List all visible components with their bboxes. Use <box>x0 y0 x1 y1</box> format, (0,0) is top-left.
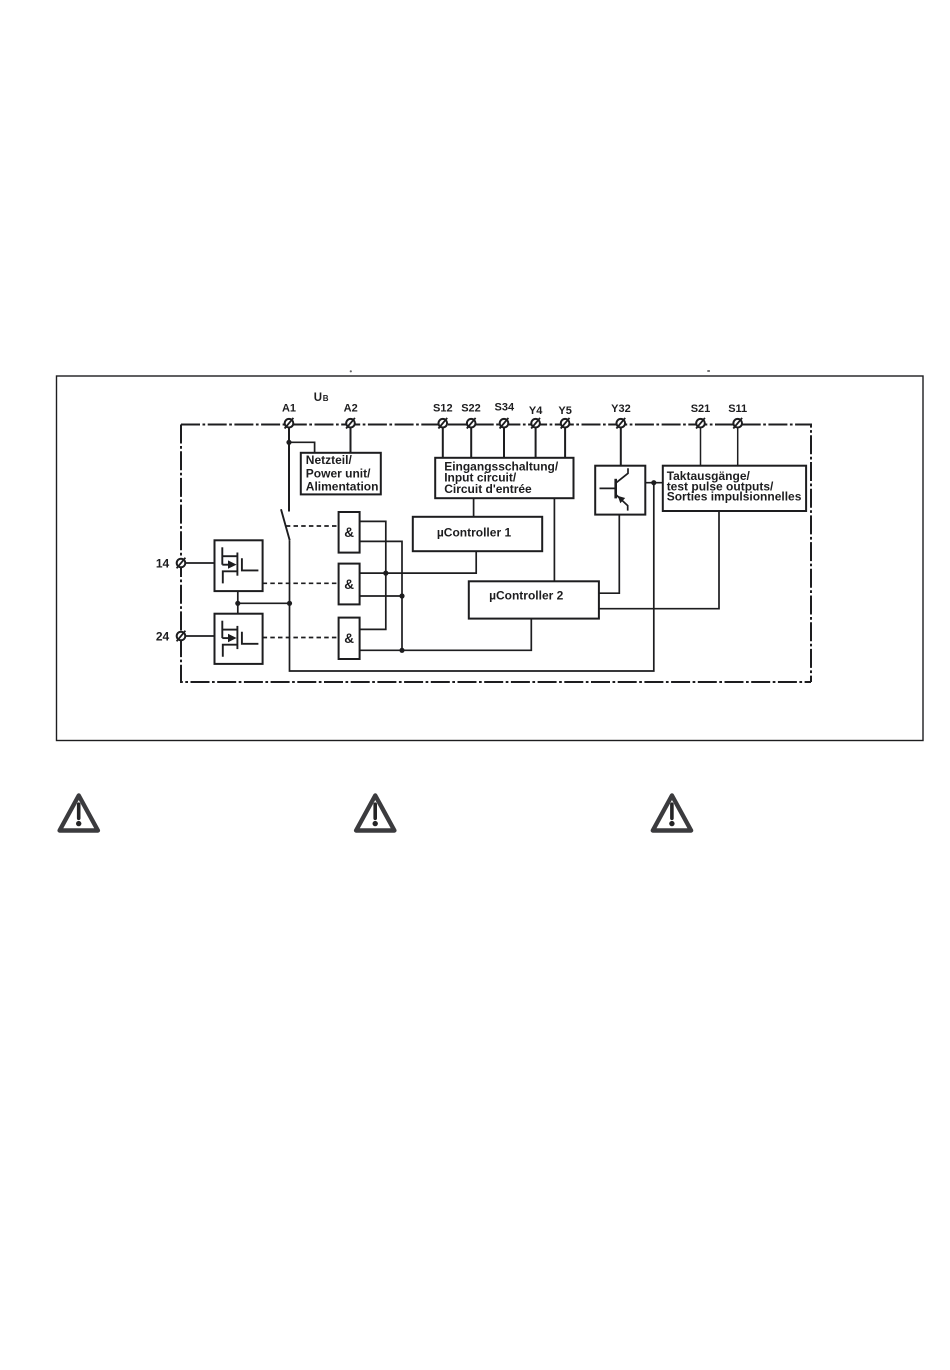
svg-text:S11: S11 <box>728 403 747 415</box>
svg-text:U: U <box>314 392 322 404</box>
svg-text:S34: S34 <box>495 402 515 414</box>
svg-text:24: 24 <box>156 630 170 644</box>
svg-text:µController 2: µController 2 <box>489 589 564 603</box>
svg-text:&: & <box>344 631 354 646</box>
svg-text:S12: S12 <box>433 402 453 414</box>
svg-text:Netzteil/: Netzteil/ <box>306 453 353 467</box>
svg-text:Alimentation: Alimentation <box>306 479 379 493</box>
svg-text:&: & <box>344 577 354 592</box>
svg-text:B: B <box>323 394 329 403</box>
svg-text:A1: A1 <box>282 402 296 414</box>
svg-text:Y4: Y4 <box>529 405 543 417</box>
svg-text:S22: S22 <box>461 402 481 414</box>
svg-text:µController 1: µController 1 <box>437 525 512 539</box>
svg-text:Sorties impulsionnelles: Sorties impulsionnelles <box>667 490 802 504</box>
svg-text:Y32: Y32 <box>611 403 631 415</box>
svg-text:Circuit d'entrée: Circuit d'entrée <box>444 482 532 496</box>
svg-text:&: & <box>344 525 354 540</box>
svg-text:A2: A2 <box>344 402 358 414</box>
svg-text:Y5: Y5 <box>558 405 571 417</box>
svg-text:Power unit/: Power unit/ <box>306 466 371 480</box>
svg-text:14: 14 <box>156 557 170 571</box>
svg-text:S21: S21 <box>691 403 711 415</box>
